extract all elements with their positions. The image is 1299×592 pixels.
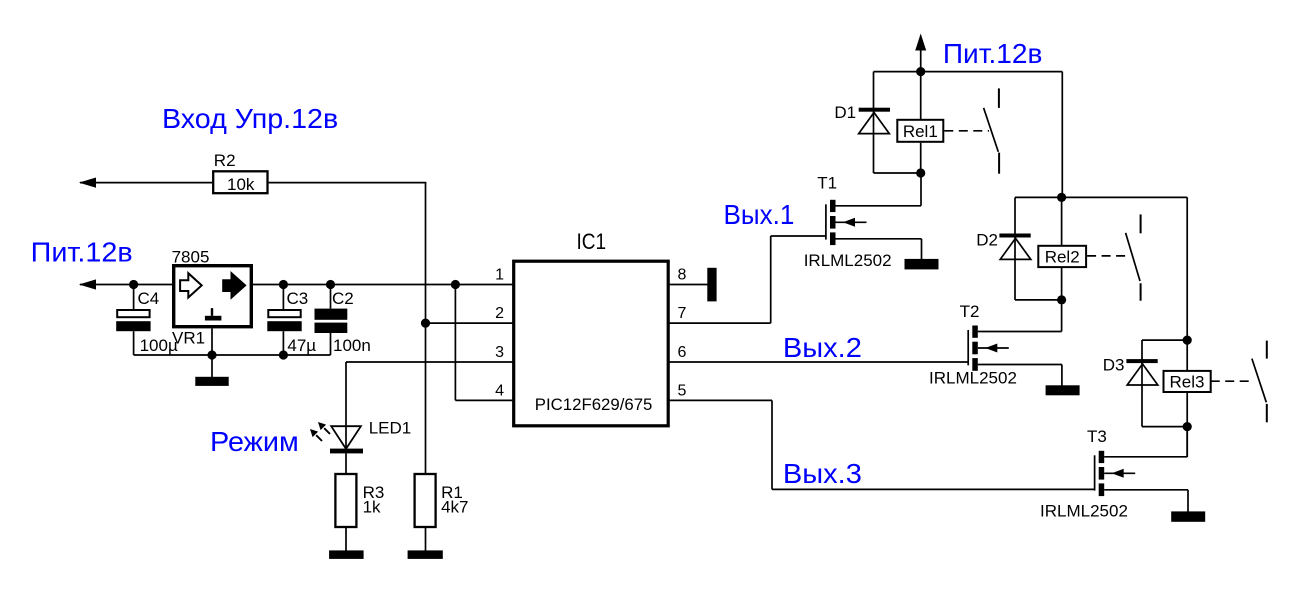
junction 7805 gnd [207, 350, 216, 359]
svg-text:D2: D2 [976, 231, 998, 250]
junction stage2 rail [1057, 193, 1066, 202]
switch contact 1 [984, 88, 1000, 173]
svg-text:Rel1: Rel1 [903, 122, 938, 141]
svg-text:3: 3 [495, 344, 504, 361]
svg-text:VR1: VR1 [172, 329, 205, 348]
wire vertical x425.5 from R2 down to R1 [425, 183, 427, 474]
svg-text:D3: D3 [1103, 356, 1125, 375]
wire pin2 [426, 322, 514, 324]
svg-text:R2: R2 [214, 151, 236, 170]
svg-text:Пит.12в: Пит.12в [943, 38, 1043, 69]
svg-text:C2: C2 [332, 289, 354, 308]
wire 12V rail stage2 [1015, 196, 1187, 198]
resistor R2 [213, 151, 267, 194]
wire pin7 to T1 gate [668, 236, 826, 323]
svg-text:10k: 10k [227, 175, 255, 194]
relay Rel2 [1038, 197, 1086, 331]
svg-text:C4: C4 [138, 289, 160, 308]
ground R3 [329, 550, 364, 559]
junction T1 drain node [916, 168, 925, 177]
junction T3 drain node [1183, 422, 1192, 431]
junction pin1 node [451, 280, 460, 289]
wire D3 bottom to node [1142, 426, 1187, 428]
svg-text:47µ: 47µ [287, 336, 316, 355]
wire 12V input to 7805 [80, 284, 173, 286]
LED LED1 [310, 362, 411, 474]
svg-text:Вых.2: Вых.2 [783, 332, 862, 363]
wire 7805 ground stem [211, 329, 213, 378]
wire R3 to ground [345, 527, 347, 551]
wire 12V top rail stage1 [874, 71, 1063, 73]
svg-text:C3: C3 [287, 289, 309, 308]
svg-text:100n: 100n [333, 336, 371, 355]
svg-text:Режим: Режим [210, 426, 299, 457]
svg-text:LED1: LED1 [369, 419, 412, 438]
wire T2 source to ground [978, 365, 1062, 386]
wire 12V rail stage3 [1142, 339, 1187, 341]
capacitor C4 [116, 285, 178, 356]
svg-text:Вход Упр.12в: Вход Упр.12в [162, 103, 338, 134]
wire T1 source to ground [836, 239, 922, 260]
junction stage3 rail [1183, 336, 1192, 345]
wire pin8 [668, 284, 708, 286]
svg-text:IC1: IC1 [577, 229, 607, 254]
svg-text:7805: 7805 [172, 248, 210, 267]
svg-text:Вых.1: Вых.1 [724, 199, 795, 230]
12V input arrowhead left [79, 279, 96, 289]
wire 5V rail 7805 to IC1 [253, 284, 514, 286]
ground R1 [408, 550, 443, 559]
svg-text:D1: D1 [834, 103, 856, 122]
diode D3 [1103, 340, 1158, 427]
svg-text:8: 8 [678, 267, 687, 284]
junction C3 top [279, 280, 288, 289]
junction C4 [129, 280, 138, 289]
wire T3 drain [1104, 427, 1187, 457]
IC1 PIC12F629/675 [514, 229, 669, 426]
wire D2 bottom to node [1015, 299, 1062, 301]
svg-text:T1: T1 [817, 174, 837, 193]
resistor R1 [415, 474, 469, 527]
svg-text:1: 1 [495, 267, 504, 284]
svg-text:IRLML2502: IRLML2502 [804, 251, 892, 270]
wire Vdd node to pin4 [455, 285, 513, 401]
diode D2 [976, 197, 1031, 300]
svg-text:7: 7 [678, 305, 687, 322]
wire pin5 to T3 gate [668, 400, 1095, 489]
svg-text:IRLML2502: IRLML2502 [929, 369, 1017, 388]
wire T3 source to ground [1104, 490, 1188, 512]
relay Rel1 [897, 72, 943, 173]
svg-text:5: 5 [678, 383, 687, 400]
ground bar pin8 [707, 268, 716, 302]
input arrowhead left [79, 178, 96, 188]
wire input arrow to R2 [80, 182, 212, 184]
svg-text:Вых.3: Вых.3 [783, 458, 862, 489]
wire T1 drain [836, 173, 922, 206]
svg-text:6: 6 [678, 344, 687, 361]
voltage regulator VR1 7805 [172, 248, 252, 348]
wire ground rail C4 to C2 [134, 354, 331, 356]
junction C2 top [326, 280, 335, 289]
relay Rel3 [1164, 340, 1211, 457]
svg-text:T2: T2 [960, 302, 980, 321]
svg-text:T3: T3 [1087, 427, 1107, 446]
transistor T1 IRLML2502 [804, 174, 892, 271]
ground T1 [905, 259, 939, 270]
svg-text:Rel2: Rel2 [1045, 247, 1080, 266]
junction T2 drain node [1057, 295, 1066, 304]
junction C3 gnd [279, 350, 288, 359]
svg-text:1k: 1k [363, 498, 381, 517]
junction top rail [916, 67, 925, 76]
wire pin3 to LED [346, 361, 513, 363]
svg-text:PIC12F629/675: PIC12F629/675 [535, 395, 653, 414]
junction pin2 R-divider [421, 319, 430, 328]
12V supply arrow up [915, 34, 926, 72]
ground below 7805 [195, 377, 228, 386]
transistor T3 IRLML2502 [1040, 427, 1135, 521]
svg-text:2: 2 [495, 305, 504, 322]
wire T2 drain [978, 331, 1062, 333]
ground T3 [1171, 511, 1205, 521]
dashed link Rel2 to switch [1087, 255, 1126, 257]
diode D1 [834, 72, 890, 173]
wire R2 to vertical [269, 182, 427, 184]
dashed link Rel1 to switch [944, 130, 989, 132]
dashed link Rel3 to switch [1211, 380, 1252, 382]
switch contact 3 [1252, 341, 1267, 423]
wire pin6 to T2 gate [668, 361, 968, 363]
capacitor C3 [267, 285, 316, 356]
ground T2 [1046, 385, 1080, 395]
wire D1 bottom to node [874, 172, 922, 174]
svg-text:IRLML2502: IRLML2502 [1040, 502, 1128, 521]
capacitor C2 [315, 285, 371, 356]
svg-text:Пит.12в: Пит.12в [31, 236, 133, 267]
wire stage1 right vertical to stage2 rail [1061, 72, 1063, 198]
svg-text:4: 4 [495, 383, 504, 400]
svg-text:4k7: 4k7 [441, 498, 468, 517]
resistor R3 [335, 474, 384, 527]
wire stage2 right vertical to stage3 rail [1186, 197, 1188, 340]
transistor T2 IRLML2502 [929, 302, 1017, 388]
switch contact 2 [1126, 214, 1141, 300]
wire R1 to ground [425, 527, 427, 551]
svg-text:Rel3: Rel3 [1170, 372, 1205, 391]
